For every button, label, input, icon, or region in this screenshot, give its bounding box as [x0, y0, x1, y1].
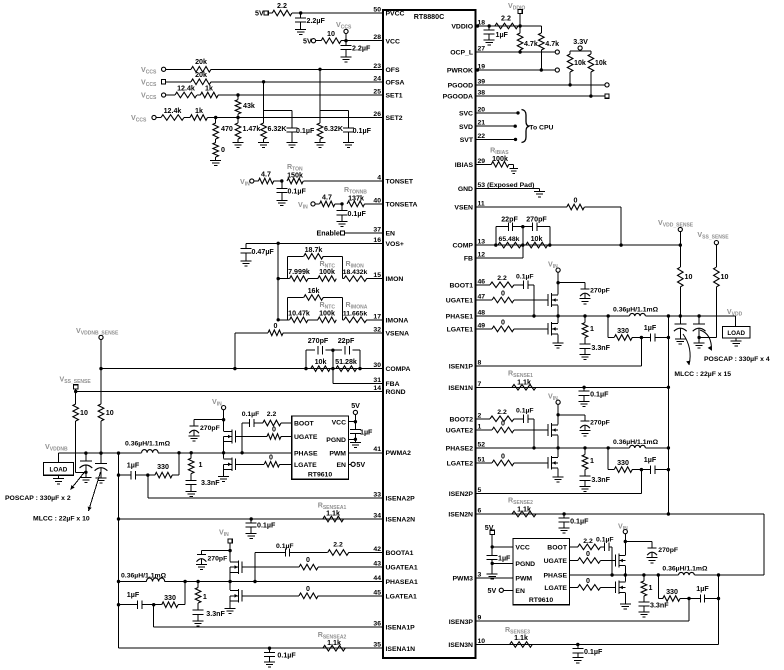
arrow POSCAP left — [71, 472, 86, 490]
node pin19 — [476, 68, 479, 71]
svg-text:GND: GND — [458, 186, 473, 193]
pin number 32 — [373, 326, 381, 333]
value 3.3nF ph1 — [591, 344, 610, 352]
pin number 37 — [373, 226, 381, 233]
VIN terminal A2 — [222, 406, 226, 410]
resistor 10 VSS sense left — [73, 404, 79, 472]
svg-text:MLCC : 22µF x 15: MLCC : 22µF x 15 — [674, 371, 731, 378]
resistor 1k SET1 — [197, 92, 383, 98]
node bootA2 phase — [240, 451, 243, 454]
svg-text:0: 0 — [221, 146, 225, 154]
wire VVDDNB rail — [58, 453, 118, 463]
value 6.32K — [268, 125, 288, 133]
node VCCS label SET2 — [131, 114, 147, 124]
value 2.2 bootA1 — [333, 542, 343, 549]
value 0.1uF ISEN1N — [590, 391, 609, 399]
svg-text:29: 29 — [478, 158, 486, 165]
capacitor MLCC B 22uF — [95, 421, 108, 478]
wire OCP_L row — [476, 51, 556, 53]
svg-text:10: 10 — [478, 638, 486, 645]
EN 5V terminal U2 — [351, 462, 355, 466]
pin 13 name COMP — [453, 243, 474, 250]
value 1uF VDDIO — [496, 31, 509, 39]
svg-text:SET1: SET1 — [386, 93, 403, 100]
capacitor 1uF VDDIO — [484, 26, 495, 38]
pin 24 name OFSA — [386, 79, 405, 86]
node COMPA A — [304, 367, 307, 370]
value 0.47uF — [252, 248, 275, 256]
node phase3 fets — [624, 573, 627, 576]
arrow MLCC left — [88, 472, 101, 511]
node VVDD RC2 — [667, 468, 670, 471]
wire ISENA2N — [119, 518, 384, 520]
svg-text:270pF: 270pF — [590, 288, 610, 295]
pin number 4 — [377, 175, 381, 182]
node ISEN3N cap — [576, 643, 579, 646]
U2 part name RT9610 — [308, 472, 332, 479]
pin 16 name VOS+ — [386, 241, 404, 248]
value 2.2 VDDIO — [501, 15, 511, 23]
capacitor 1uF U2 — [350, 426, 361, 440]
capacitor 1uF A2 — [119, 471, 148, 479]
svg-text:0.36µH/1.1mΩ: 0.36µH/1.1mΩ — [613, 439, 659, 446]
wire ISEN1N row — [476, 386, 669, 388]
svg-text:VOS+: VOS+ — [386, 241, 404, 248]
POSCAP x2 label — [5, 495, 71, 502]
pin 49 name LGATE1 — [447, 327, 474, 334]
wire PWROK row — [476, 69, 556, 71]
resistor 10k PGOODA — [588, 54, 594, 96]
svg-text:17: 17 — [373, 313, 381, 320]
svg-text:2.2: 2.2 — [497, 409, 507, 416]
wire capA to ground — [85, 472, 87, 477]
svg-text:2.2: 2.2 — [333, 542, 343, 549]
U2 pin name VCC — [332, 419, 346, 426]
value 1uF A1 — [127, 591, 140, 599]
ground QA1 low source — [225, 609, 236, 614]
svg-text:270pF: 270pF — [590, 420, 610, 427]
U3 part name RT9610 — [529, 597, 553, 604]
resistor 0 VSENA — [235, 330, 383, 336]
node VVDD rail top — [667, 314, 670, 317]
svg-text:BOOT: BOOT — [294, 421, 315, 428]
value 100k — [319, 268, 335, 276]
node RC A1 mid — [152, 603, 155, 606]
inductor 0.36uH phase1 — [630, 313, 646, 316]
svg-text:470: 470 — [221, 125, 233, 133]
3.3V label — [573, 38, 588, 46]
resistor RIMON 18.432k — [342, 276, 383, 282]
node RC1 mid — [640, 336, 643, 339]
Enable terminal — [340, 231, 344, 235]
node boot2 phase — [532, 446, 535, 449]
resistor 0 UGATE2 — [476, 427, 549, 433]
svg-text:1: 1 — [199, 461, 203, 469]
svg-text:7.999k: 7.999k — [288, 268, 310, 276]
resistor RTONNB 137k — [347, 201, 383, 207]
svg-text:VCC: VCC — [386, 38, 400, 45]
pin 43 name UGATEA1 — [386, 565, 418, 572]
node VCCS label — [336, 21, 352, 31]
node cap2 bottom — [697, 336, 700, 339]
value 1.1k s3 — [514, 634, 528, 642]
pin 1 name UGATE2 — [446, 428, 473, 435]
value 16k — [308, 287, 320, 295]
value 22pF COMP — [501, 216, 518, 224]
inductor value ph2 — [613, 439, 659, 446]
resistor 330 A2 — [148, 472, 179, 478]
ground QA2 low source — [218, 477, 229, 482]
load box VVDDNB — [43, 463, 73, 476]
value 4.7 — [261, 171, 271, 179]
svg-text:SVT: SVT — [460, 137, 474, 144]
svg-text:20k: 20k — [195, 58, 207, 66]
5V label U3 — [485, 524, 494, 532]
transistor Q upper ph1 — [514, 293, 558, 307]
svg-text:0: 0 — [306, 585, 310, 593]
ground cap2 right — [694, 343, 705, 348]
value 0.1uF bootA2 — [242, 411, 260, 418]
node VCC — [344, 39, 347, 42]
capacitor 0.1uF ISEN3N — [572, 645, 583, 657]
node PVCC — [299, 11, 302, 14]
value 330 ph3 — [666, 588, 678, 596]
U2 pin name PHASE — [294, 450, 318, 457]
wire COMP cap box — [496, 227, 550, 245]
svg-text:PGOODA: PGOODA — [443, 94, 473, 101]
svg-text:47: 47 — [478, 294, 486, 301]
svg-text:0.1µF: 0.1µF — [590, 391, 609, 399]
value 1.1k s2 — [517, 506, 531, 514]
svg-text:10: 10 — [80, 409, 88, 417]
wire 270pF ph2 branch — [558, 415, 585, 418]
node bootA1 phase — [253, 580, 256, 583]
svg-text:1µF: 1µF — [696, 585, 709, 593]
svg-text:11: 11 — [478, 201, 485, 208]
resistor 1 snubber ph3 — [641, 575, 647, 596]
pin 51 name LGATE2 — [447, 461, 474, 468]
resistor RTONNB label — [344, 186, 367, 196]
value 7.999k — [288, 268, 310, 276]
value 100k IBIAS — [492, 155, 508, 163]
value 330 A1 — [164, 594, 176, 602]
svg-text:LGATE2: LGATE2 — [447, 461, 474, 468]
resistor 10 VDD sense — [678, 267, 684, 316]
svg-text:To CPU: To CPU — [529, 125, 553, 132]
value 10 — [327, 30, 335, 38]
pin number 51 — [478, 456, 486, 463]
node ISENA2N cap — [250, 517, 253, 520]
svg-text:10k: 10k — [531, 235, 543, 243]
ground TONSETA cap — [337, 219, 348, 227]
svg-text:25: 25 — [373, 89, 381, 96]
value 3.3nF A1 — [206, 610, 225, 618]
wire IMON left rail — [277, 243, 279, 319]
node RC A1 left — [117, 603, 120, 606]
op-amp U3 RT9610 driver body — [513, 539, 570, 605]
transistor Q upper A2 — [224, 430, 267, 444]
node VIN 270p A2 — [222, 418, 225, 421]
value 3.3nF A2 — [201, 479, 220, 487]
node SET2 junction B — [236, 116, 239, 119]
node boot1 phase — [532, 314, 535, 317]
svg-text:ISEN1P: ISEN1P — [449, 364, 474, 371]
wire phase1 line — [476, 315, 736, 317]
wire Q1lo drain — [557, 316, 559, 323]
value 0.1uF — [348, 210, 367, 218]
VIN terminal A1 — [228, 539, 232, 543]
svg-text:30: 30 — [373, 362, 381, 369]
value 4.7k first — [524, 40, 538, 48]
To CPU label — [529, 125, 553, 132]
svg-text:4.7k: 4.7k — [545, 40, 559, 48]
wire PGOOD row — [476, 84, 605, 86]
node capA bottom — [84, 471, 87, 474]
svg-text:270pF: 270pF — [658, 547, 678, 554]
wire VIN down ph3 — [624, 534, 626, 552]
U1 part name RT8880C — [414, 13, 444, 21]
wire bootA2 to phase — [241, 423, 243, 453]
svg-text:43k: 43k — [243, 102, 255, 110]
transistor Q lower A1 — [230, 589, 299, 603]
node rail cap1 right — [679, 314, 682, 317]
pin 40 name TONSETA — [386, 202, 418, 209]
pin number 45 — [373, 589, 381, 596]
svg-text:SET2: SET2 — [386, 115, 403, 122]
node ISEN2N rail — [667, 512, 670, 515]
value 0 ugate1 — [501, 290, 505, 298]
capacitor 0.47uF — [241, 243, 252, 257]
svg-text:6.32K: 6.32K — [268, 125, 288, 133]
pin number 53 (Exposed Pad) — [478, 182, 535, 189]
resistor 2.2 BOOTA2 — [258, 420, 292, 426]
POSCAP x4 label — [704, 356, 770, 363]
pin 30 name COMPA — [386, 366, 411, 373]
value 100k — [319, 309, 335, 317]
node VIN label TONSETA — [298, 201, 308, 211]
transistor Q lower ph3 — [601, 581, 626, 595]
resistor 330 ph2 — [608, 467, 641, 473]
wire VVDD_SENSE down — [679, 232, 681, 268]
node rail to inductor A1 — [117, 580, 120, 583]
svg-text:330: 330 — [157, 463, 169, 471]
value 1 ph1 — [590, 325, 594, 333]
svg-text:OFS: OFS — [386, 67, 400, 74]
wire OFS branch down — [320, 69, 349, 119]
pin number 5 — [478, 487, 482, 494]
wire boot2 to phase — [533, 419, 535, 448]
resistor 1.47k — [235, 118, 241, 140]
node rail capA — [84, 451, 87, 454]
svg-text:0.47µF: 0.47µF — [252, 248, 275, 256]
svg-text:5: 5 — [478, 487, 482, 494]
resistor 20k OFS — [166, 67, 383, 73]
svg-text:1.47k: 1.47k — [243, 125, 261, 133]
svg-text:PHASE: PHASE — [543, 573, 567, 580]
value 137k — [348, 195, 364, 203]
value 2.2 boot2 — [497, 409, 507, 416]
node ISENA1N cap — [268, 647, 271, 650]
5V supply label — [255, 10, 264, 18]
wire U3 EN — [503, 589, 513, 591]
wire Q3hi source — [624, 566, 626, 575]
ground 0.1uF ISENA2N — [246, 531, 257, 539]
value 330 A2 — [157, 463, 169, 471]
capacitor 270pF COMPA — [318, 346, 322, 354]
value 330 ph1 — [617, 327, 629, 335]
capacitor 22pF COMP — [508, 223, 512, 231]
capacitor 1uF A1 — [119, 601, 154, 609]
resistor 12.4k SET2 — [156, 115, 184, 121]
svg-text:10k: 10k — [315, 358, 327, 366]
svg-text:OCP_L: OCP_L — [450, 50, 473, 57]
node COMPA cap mid — [331, 349, 334, 352]
pin 39 name PGOOD — [448, 83, 473, 90]
svg-text:2.2: 2.2 — [267, 411, 277, 418]
5V label U2 EN — [356, 461, 365, 469]
node VVDD phase2 — [667, 446, 670, 449]
svg-text:SVD: SVD — [459, 124, 473, 131]
svg-text:IMONA: IMONA — [386, 317, 409, 324]
svg-text:34: 34 — [373, 513, 381, 520]
wire VSS sense to capA bottom — [76, 471, 86, 473]
resistor 10k COMP — [526, 242, 548, 248]
value 1 ph2 — [590, 457, 594, 465]
value 0.1uF ISENA2N — [257, 522, 276, 530]
value 4.7k second — [545, 40, 559, 48]
wire phase A2 line — [179, 452, 292, 454]
pin 3 name PWM3 — [453, 576, 474, 583]
svg-text:ISEN3N: ISEN3N — [448, 642, 473, 649]
ground TONSET cap — [276, 197, 287, 206]
value 10k COMPA — [315, 358, 327, 366]
value 1k — [205, 85, 213, 93]
svg-text:51.28k: 51.28k — [335, 358, 357, 366]
node IMON rail — [277, 277, 280, 280]
pin number 41 — [373, 446, 381, 453]
U3 pin name EN — [515, 588, 525, 595]
svg-text:5V: 5V — [351, 402, 360, 410]
ground PVCC cap — [295, 26, 306, 35]
svg-text:1: 1 — [590, 457, 594, 465]
wire ISEN3P — [476, 599, 690, 622]
resistor 10 VDDNB sense — [98, 404, 104, 453]
wire rail down to A1 — [118, 519, 120, 648]
wire VSENA down to COMPA — [234, 333, 236, 369]
svg-text:RT9610: RT9610 — [308, 472, 332, 479]
value 10k PGOODA — [595, 59, 607, 67]
pin number 13 — [478, 239, 486, 246]
node ISEN1N cap — [582, 386, 585, 389]
3.3V terminal — [578, 46, 582, 50]
resistor 2.2 BOOT2 — [490, 416, 514, 422]
wire QA1lo drain — [229, 582, 231, 591]
wire Q3lo source — [624, 593, 626, 604]
value 10 left B — [80, 409, 88, 417]
svg-text:0: 0 — [306, 556, 310, 564]
value 2.2 boot1 — [497, 275, 507, 282]
transistor Q upper ph2 — [514, 423, 558, 437]
svg-text:LGATE1: LGATE1 — [447, 327, 474, 334]
svg-text:22pF: 22pF — [338, 337, 355, 345]
svg-text:11.665k: 11.665k — [343, 310, 368, 317]
wire VSEN down — [620, 207, 622, 245]
U2 pin name LGATE — [294, 462, 317, 469]
resistor 10.47k — [290, 317, 308, 323]
node ISEN2N cap — [562, 512, 565, 515]
svg-text:10: 10 — [327, 30, 335, 38]
ground Q1 low source — [553, 343, 564, 348]
U3 pin name PWM — [515, 576, 532, 583]
node COMP A — [494, 243, 497, 246]
svg-text:0.1µF: 0.1µF — [353, 127, 372, 135]
svg-text:PVCC: PVCC — [386, 11, 405, 18]
svg-text:18.7k: 18.7k — [305, 246, 323, 254]
resistor 2.2 PVCC — [268, 10, 301, 16]
wire U3 VCC — [492, 535, 513, 552]
ground 270pF A1 — [196, 564, 207, 570]
pin number 48 — [478, 310, 486, 317]
resistor 2.2 BOOT3 — [570, 544, 601, 550]
pin 41 name PWMA2 — [386, 450, 412, 457]
svg-text:EN: EN — [515, 588, 525, 595]
pin 35 name ISENA1N — [386, 646, 416, 653]
pin number 15 — [373, 272, 381, 279]
VIN terminal ph1 — [556, 268, 560, 272]
svg-text:9: 9 — [478, 615, 482, 622]
wire 270pF A2 branch — [194, 420, 224, 423]
resistor 10 VSS sense right — [714, 267, 720, 337]
node OFSA junction — [262, 80, 265, 83]
wire Q2hi source — [557, 436, 559, 448]
U2 pin name PWM — [329, 450, 346, 457]
wire ISENA1P — [154, 605, 383, 627]
pin number 44 — [373, 575, 381, 582]
svg-text:42: 42 — [373, 546, 381, 553]
svg-text:35: 35 — [373, 642, 381, 649]
wire BOOT1 row — [476, 284, 491, 286]
pin 47 name UGATE1 — [446, 298, 473, 305]
ground cap1 right — [675, 337, 686, 344]
resistor 6.32k first — [261, 110, 267, 139]
svg-text:40: 40 — [373, 197, 381, 204]
value 1uF U3 — [498, 555, 511, 563]
node VSEN join — [619, 243, 622, 246]
node phase A1 snubber — [196, 580, 199, 583]
wire U2 PWM to pin41 — [348, 452, 383, 454]
value 330 ph2 — [617, 459, 629, 467]
value 12.4k — [177, 85, 195, 93]
pin 52 name PHASE2 — [446, 446, 474, 453]
node phase A2 snubber — [190, 451, 193, 454]
svg-text:POSCAP : 330µF x 2: POSCAP : 330µF x 2 — [5, 495, 71, 502]
value 1uF ph1 — [644, 324, 657, 332]
pin 17 name IMONA — [386, 317, 409, 324]
resistor 0 LGATE3 — [570, 585, 601, 591]
wire RC A1 right up — [184, 582, 186, 605]
resistor 330 ph3 — [658, 596, 689, 602]
capacitor 270pF ph2 — [580, 418, 590, 430]
svg-text:0.1µF: 0.1µF — [288, 188, 307, 196]
svg-text:23: 23 — [373, 63, 381, 70]
U3 pin name PGND — [515, 561, 535, 568]
wire RC3 right down — [718, 575, 720, 645]
svg-text:BOOTA1: BOOTA1 — [386, 550, 414, 557]
wire VIN down ph1 — [557, 272, 559, 294]
wire VIN down A1 — [229, 543, 231, 556]
wire phase3 line — [570, 574, 765, 576]
node VDDIO — [518, 24, 521, 27]
